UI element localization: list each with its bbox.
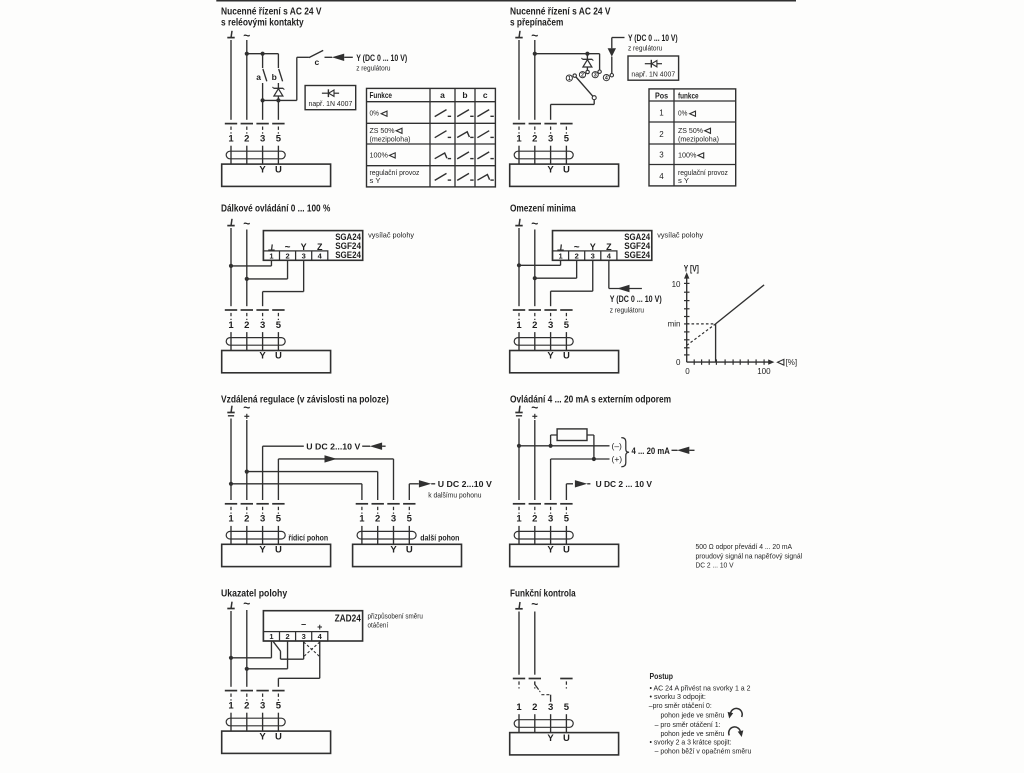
svg-text:4: 4	[605, 75, 608, 81]
svg-text:1: 1	[659, 108, 664, 117]
svg-text:např. 1N 4007: např. 1N 4007	[631, 69, 675, 78]
svg-text:100: 100	[757, 367, 771, 376]
svg-text:s Y: s Y	[370, 176, 381, 185]
svg-text:pohon jede ve směru: pohon jede ve směru	[661, 729, 725, 738]
svg-text:+: +	[317, 622, 322, 632]
svg-text:další pohon: další pohon	[420, 533, 459, 542]
svg-text:500 Ω odpor převádí 4 ... 20 m: 500 Ω odpor převádí 4 ... 20 mA	[696, 542, 793, 551]
svg-text:• AC 24 A přivést na svorky 1: • AC 24 A přivést na svorky 1 a 2	[650, 683, 751, 692]
svg-text:4: 4	[659, 172, 664, 181]
svg-text:~: ~	[531, 401, 538, 415]
svg-text:Y: Y	[590, 242, 596, 252]
svg-text:pohon jede ve směru: pohon jede ve směru	[661, 711, 725, 720]
svg-text:z regulátoru: z regulátoru	[356, 63, 390, 72]
svg-text:– pohon běží v opačném směru: – pohon běží v opačném směru	[655, 746, 752, 755]
svg-text:0%: 0%	[678, 108, 688, 117]
svg-text:(+): (+)	[612, 454, 623, 464]
svg-text:3: 3	[594, 72, 597, 78]
svg-text:otáčení: otáčení	[368, 620, 389, 629]
svg-text:1: 1	[568, 76, 571, 82]
svg-text:1: 1	[269, 252, 273, 261]
svg-text:řídicí pohon: řídicí pohon	[288, 533, 328, 542]
svg-text:2: 2	[581, 72, 584, 78]
svg-text:1: 1	[558, 252, 562, 261]
svg-text:–pro směr otáčení 0:: –pro směr otáčení 0:	[649, 701, 712, 710]
svg-text:s přepínačem: s přepínačem	[510, 18, 563, 29]
svg-text:1: 1	[269, 632, 273, 641]
svg-text:přizpůsobení směru: přizpůsobení směru	[368, 612, 423, 621]
svg-text:Z: Z	[317, 242, 323, 252]
svg-text:Y (DC 0 ... 10 V): Y (DC 0 ... 10 V)	[610, 294, 662, 304]
svg-text:3: 3	[591, 252, 595, 261]
svg-text:c: c	[315, 57, 320, 67]
svg-text:SGE24: SGE24	[335, 250, 361, 260]
svg-text:0%: 0%	[370, 108, 380, 117]
svg-text:~: ~	[243, 597, 250, 611]
svg-text:[%]: [%]	[786, 358, 798, 367]
svg-text:z regulátoru: z regulátoru	[628, 44, 662, 53]
svg-text:ZAD24: ZAD24	[335, 614, 362, 625]
svg-text:b: b	[462, 90, 467, 100]
svg-text:proudový signál na napěťový si: proudový signál na napěťový signál	[696, 551, 803, 560]
svg-text:~: ~	[243, 217, 250, 231]
svg-text:Dálkové ovládání 0 ... 100 %: Dálkové ovládání 0 ... 100 %	[221, 204, 330, 215]
svg-text:b: b	[272, 72, 277, 82]
svg-text:Y (DC 0 ... 10 V): Y (DC 0 ... 10 V)	[356, 53, 407, 63]
svg-text:funkce: funkce	[678, 90, 699, 100]
svg-text:vysílač polohy: vysílač polohy	[657, 230, 703, 239]
svg-text:3: 3	[302, 252, 306, 261]
svg-text:min: min	[668, 320, 681, 329]
svg-text:Funkce: Funkce	[370, 90, 393, 100]
svg-text:~: ~	[243, 401, 250, 415]
svg-text:Z: Z	[606, 242, 612, 252]
svg-text:U DC 2...10 V: U DC 2...10 V	[438, 479, 492, 489]
svg-text:3: 3	[659, 151, 664, 160]
svg-text:0: 0	[676, 358, 681, 367]
svg-text:100%: 100%	[678, 151, 697, 160]
svg-text:U DC 2 ... 10 V: U DC 2 ... 10 V	[596, 479, 653, 489]
svg-text:– pro směr otáčení 1:: – pro směr otáčení 1:	[655, 720, 721, 729]
svg-text:3: 3	[302, 632, 306, 641]
svg-text:DC 2 ... 10 V: DC 2 ... 10 V	[696, 561, 734, 570]
svg-text:a: a	[256, 72, 261, 82]
svg-text:–: –	[301, 619, 306, 629]
svg-text:Y (DC 0 ... 10 V): Y (DC 0 ... 10 V)	[628, 33, 678, 43]
svg-text:vysílač polohy: vysílač polohy	[368, 230, 414, 239]
svg-text:U DC 2...10 V: U DC 2...10 V	[306, 442, 360, 452]
svg-text:c: c	[483, 90, 488, 100]
svg-text:100%: 100%	[370, 151, 389, 160]
svg-text:• svorku 3 odpojit:: • svorku 3 odpojit:	[650, 692, 706, 701]
svg-text:Y [V]: Y [V]	[684, 263, 699, 273]
svg-text:s reléovými kontakty: s reléovými kontakty	[221, 18, 304, 29]
svg-text:např. 1N 4007: např. 1N 4007	[309, 99, 353, 108]
svg-text:Postup: Postup	[650, 672, 674, 681]
svg-text:a: a	[440, 90, 445, 100]
svg-text:SGE24: SGE24	[624, 250, 650, 260]
svg-text:• svorky 2 a 3 krátce spojit:: • svorky 2 a 3 krátce spojit:	[650, 738, 732, 747]
svg-text:~: ~	[574, 242, 580, 253]
svg-text:Y: Y	[301, 242, 307, 252]
svg-text:~: ~	[531, 597, 538, 611]
svg-text:Pos: Pos	[655, 90, 668, 100]
svg-text:s Y: s Y	[678, 176, 689, 185]
svg-text:Nucenné řízení s AC 24 V: Nucenné řízení s AC 24 V	[221, 6, 322, 17]
svg-text:Nucenné řízení s AC 24 V: Nucenné řízení s AC 24 V	[510, 6, 611, 17]
svg-text:Funkční kontrola: Funkční kontrola	[510, 588, 576, 599]
svg-text:2: 2	[285, 632, 289, 641]
svg-text:4 ... 20 mA: 4 ... 20 mA	[632, 446, 671, 456]
svg-text:~: ~	[531, 217, 538, 231]
svg-text:0: 0	[685, 367, 690, 376]
svg-text:~: ~	[285, 242, 291, 253]
svg-text:z regulátoru: z regulátoru	[610, 305, 644, 314]
svg-text:10: 10	[672, 280, 681, 289]
svg-text:(mezipoloha): (mezipoloha)	[370, 134, 411, 143]
svg-text:2: 2	[659, 130, 664, 139]
svg-text:Ukazatel polohy: Ukazatel polohy	[221, 588, 288, 599]
svg-text:(mezipoloha): (mezipoloha)	[678, 134, 719, 143]
svg-text:(–): (–)	[612, 441, 623, 451]
svg-text:Omezení minima: Omezení minima	[510, 204, 576, 215]
svg-text:k dalšímu pohonu: k dalšímu pohonu	[428, 491, 481, 500]
